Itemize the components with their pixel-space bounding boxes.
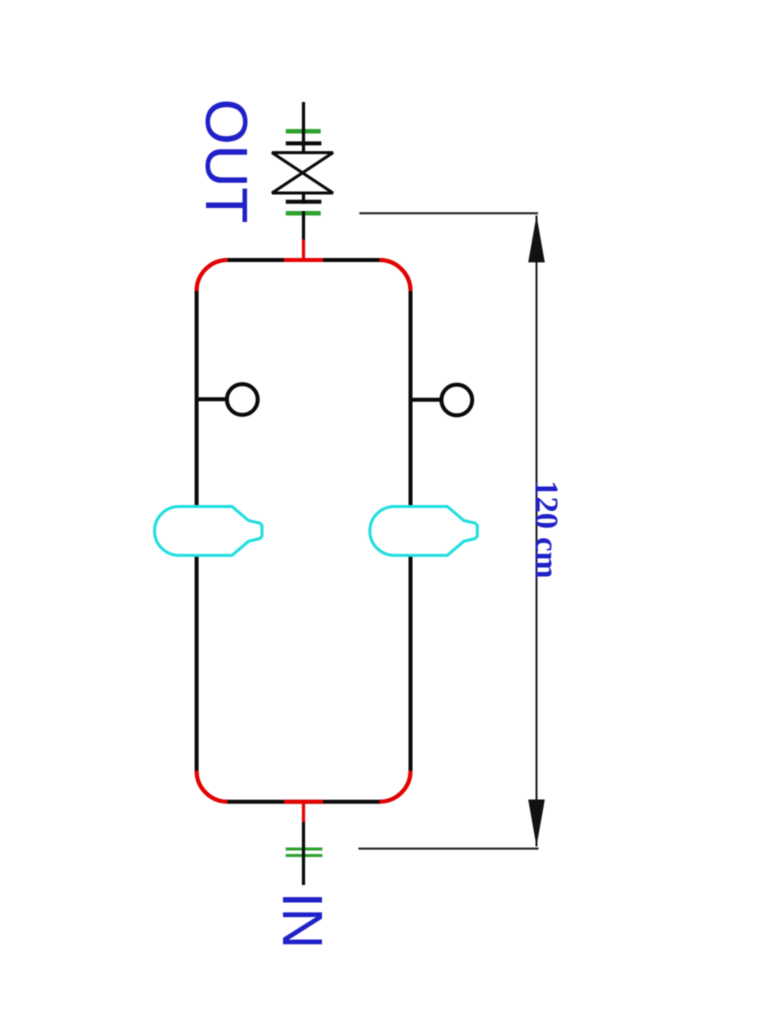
svg-text:120 cm: 120 cm	[528, 480, 564, 578]
svg-text:OUT: OUT	[193, 99, 259, 224]
svg-text:IN: IN	[270, 892, 334, 949]
